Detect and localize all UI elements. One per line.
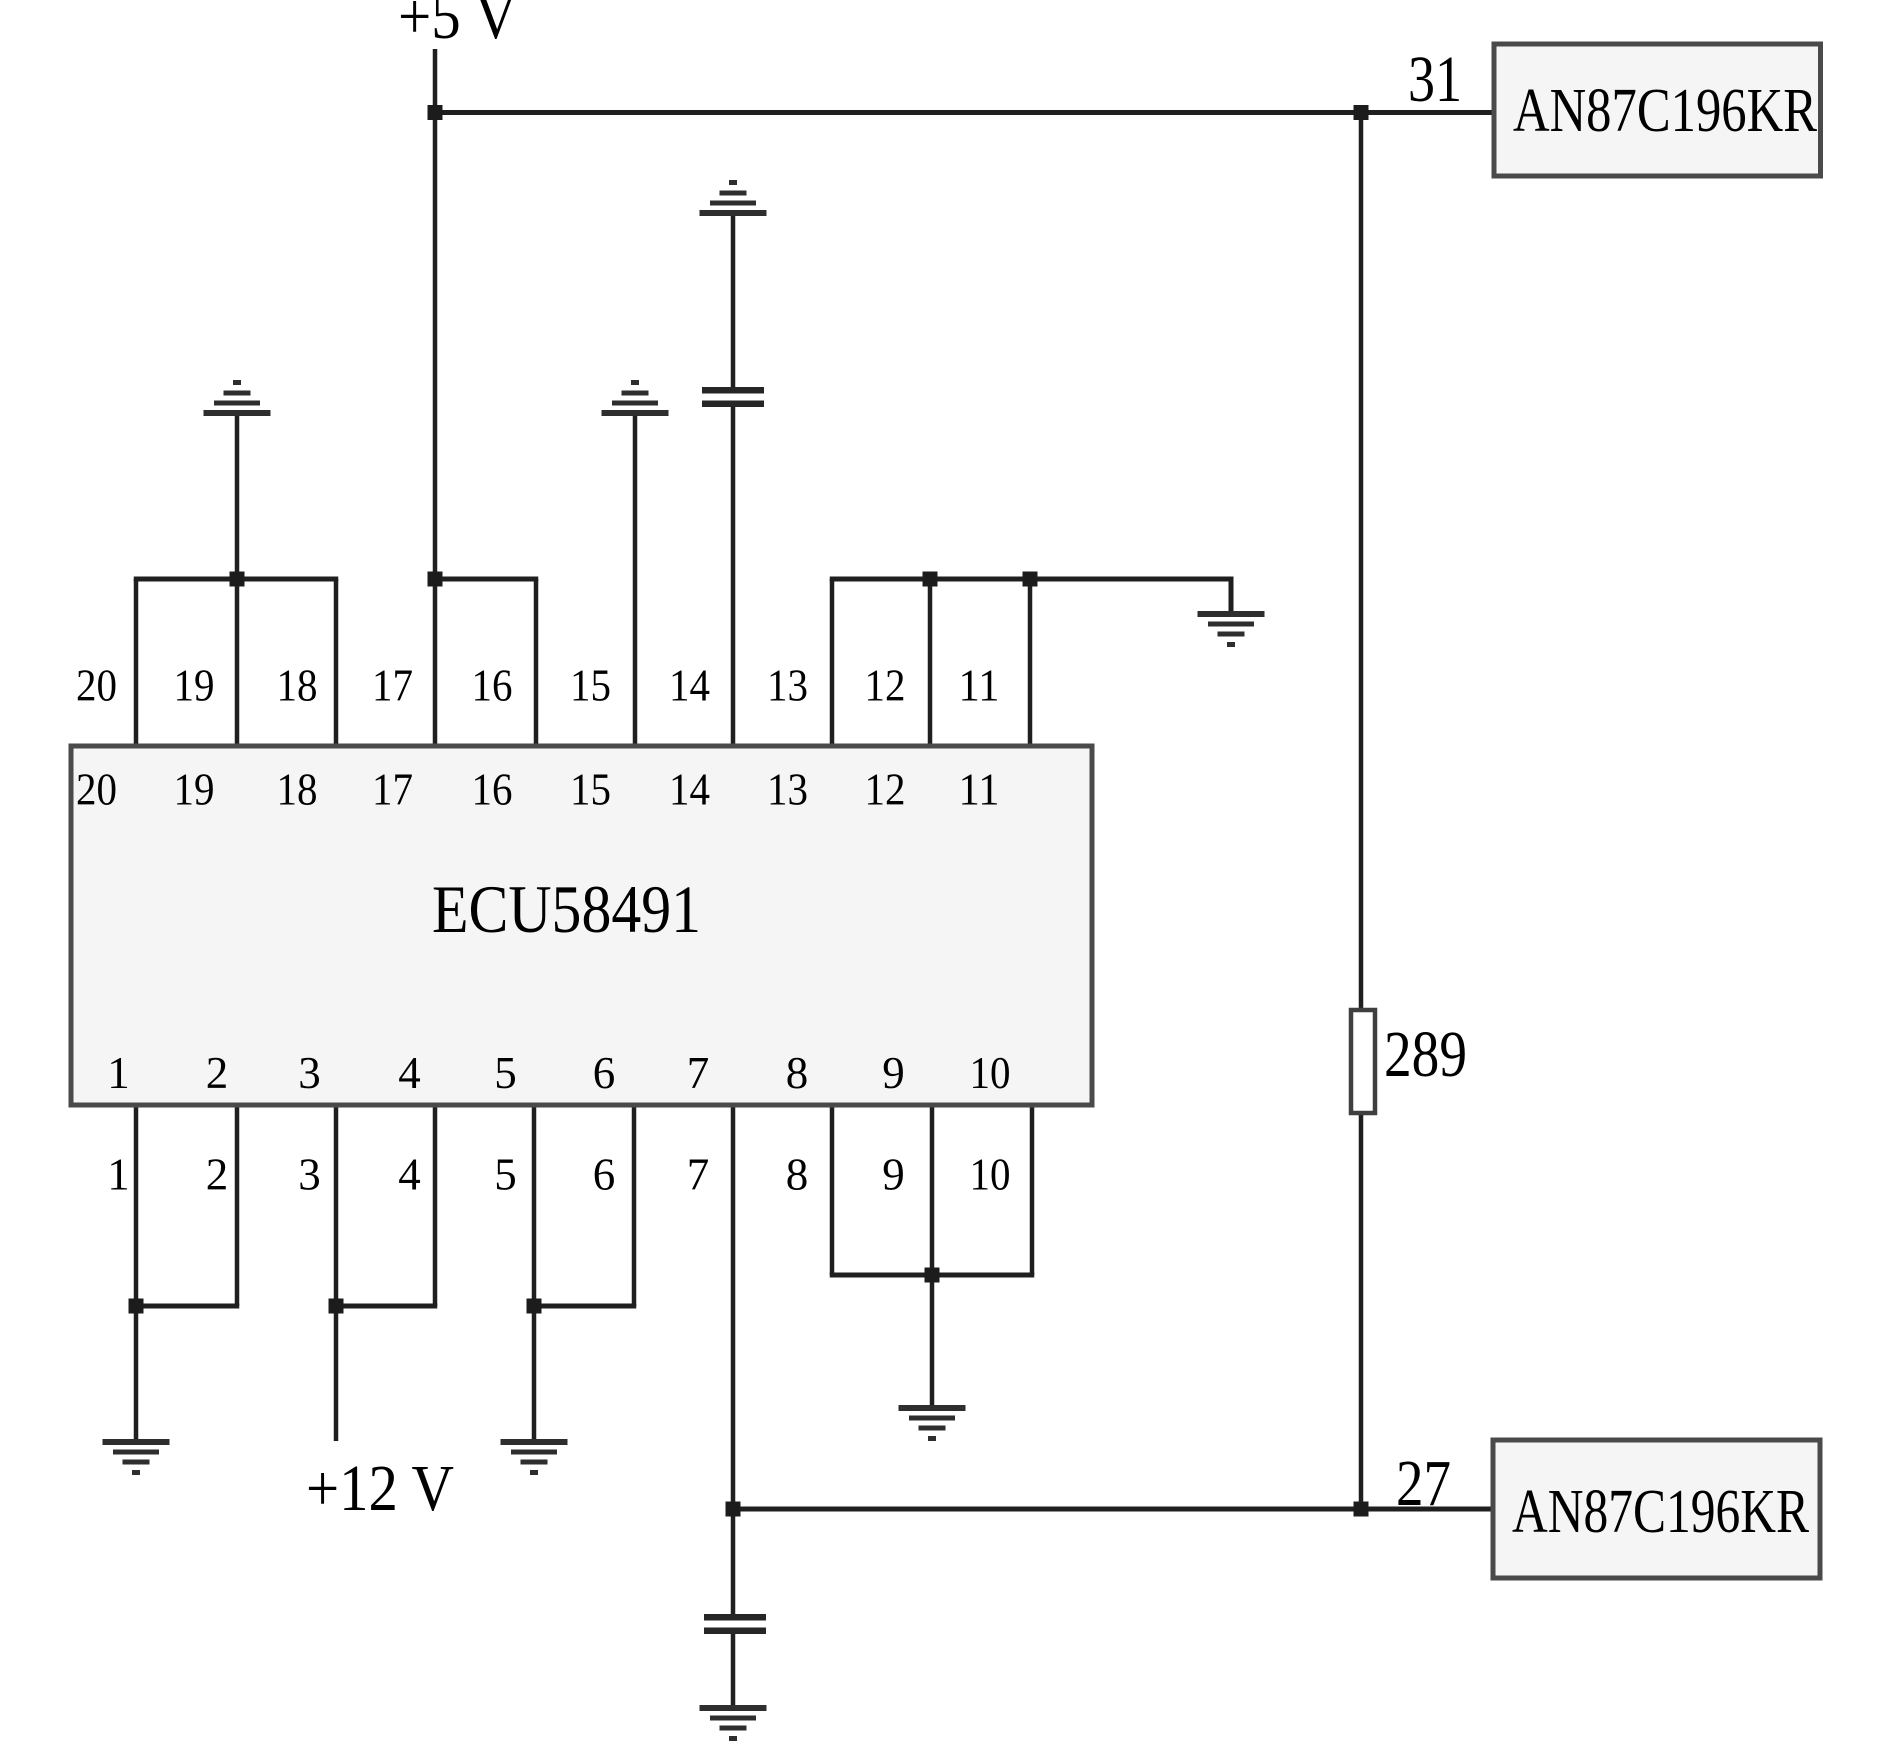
- svg-text:289: 289: [1384, 1018, 1467, 1091]
- svg-text:19: 19: [174, 765, 215, 815]
- svg-text:AN87C196KR: AN87C196KR: [1513, 77, 1818, 145]
- svg-text:9: 9: [882, 1048, 905, 1098]
- svg-text:1: 1: [107, 1150, 130, 1200]
- wire pin13 top x=832: [830, 579, 835, 747]
- svg-text:ECU58491: ECU58491: [432, 871, 701, 947]
- wire ground stem x=237: [235, 416, 240, 579]
- wire +5V vertical x=435 from top to IC box: [433, 49, 438, 747]
- ground G2 flipped above pin15: [602, 380, 669, 416]
- svg-text:11: 11: [959, 765, 1000, 815]
- resistor 289 body: [1351, 1010, 1375, 1113]
- wire bracket pins 3-4: [334, 1304, 438, 1309]
- svg-text:31: 31: [1408, 43, 1462, 116]
- wire pin2 bottom x=237: [235, 1103, 240, 1306]
- svg-text:12: 12: [865, 765, 906, 815]
- svg-text:4: 4: [398, 1048, 421, 1098]
- svg-text:19: 19: [174, 661, 215, 711]
- svg-text:8: 8: [786, 1150, 809, 1200]
- wire bracket pins 1-2: [134, 1304, 240, 1309]
- svg-text:14: 14: [669, 765, 710, 815]
- wire pin3 bottom x=336: [334, 1103, 339, 1441]
- wire bracket pins 20-18: [134, 577, 339, 582]
- svg-text:13: 13: [767, 661, 808, 711]
- svg-text:+12 V: +12 V: [306, 1452, 454, 1525]
- svg-text:15: 15: [570, 765, 611, 815]
- svg-text:16: 16: [472, 661, 513, 711]
- ground G7 below pin9: [899, 1405, 966, 1441]
- svg-text:16: 16: [472, 765, 513, 815]
- wire pin1 bottom x=136: [134, 1103, 139, 1439]
- svg-text:2: 2: [206, 1048, 229, 1098]
- capacitor C2 on pin7: [704, 1614, 766, 1634]
- svg-text:27: 27: [1396, 1447, 1451, 1520]
- svg-text:7: 7: [687, 1150, 710, 1200]
- pin labels top outside row: [76, 661, 1000, 711]
- wire top horizontal y=111: [435, 110, 1492, 115]
- wire pin8 bottom x=832: [830, 1103, 835, 1275]
- svg-text:18: 18: [277, 661, 318, 711]
- wire pin4 bottom x=435: [433, 1103, 438, 1306]
- microcontroller box AN87C196KR bottom: [1493, 1440, 1820, 1578]
- svg-text:3: 3: [298, 1048, 321, 1098]
- svg-text:20: 20: [76, 765, 117, 815]
- wire pin18 top x=336: [334, 579, 339, 747]
- ground G5 below pin1: [103, 1439, 170, 1475]
- svg-text:10: 10: [970, 1048, 1011, 1098]
- wire pin12 top x=930: [928, 579, 933, 747]
- wire pin14 top lower segment: [731, 406, 736, 747]
- wire bottom horizontal y=1509: [733, 1507, 1494, 1512]
- svg-text:3: 3: [298, 1150, 321, 1200]
- ground G8 below pin7 capacitor: [700, 1705, 767, 1741]
- svg-text:18: 18: [277, 765, 318, 815]
- pin labels bottom inside row: [107, 1048, 1010, 1098]
- svg-text:6: 6: [593, 1150, 616, 1200]
- svg-text:11: 11: [959, 661, 1000, 711]
- junction node dots: [428, 105, 443, 120]
- svg-text:8: 8: [786, 1048, 809, 1098]
- wire bracket pins 8-10: [830, 1273, 1035, 1278]
- pin labels bottom outside row: [107, 1150, 1010, 1200]
- wire pin19 top x=237: [235, 579, 240, 747]
- svg-text:4: 4: [398, 1150, 421, 1200]
- wire pin10 bottom x=1032: [1030, 1103, 1035, 1275]
- svg-text:6: 6: [593, 1048, 616, 1098]
- wire pin6 bottom x=634: [632, 1103, 637, 1306]
- wire pin7 bottom upper x=733: [731, 1103, 736, 1614]
- wire pin11 top x=1030: [1028, 579, 1033, 747]
- ground G3 flipped above pin14 capacitor: [700, 180, 767, 216]
- wire right bus lower: [1359, 1113, 1364, 1509]
- svg-text:15: 15: [570, 661, 611, 711]
- svg-text:14: 14: [669, 661, 710, 711]
- ground G4 right of pins 12-11: [1198, 611, 1265, 647]
- svg-text:AN87C196KR: AN87C196KR: [1512, 1478, 1810, 1546]
- svg-text:2: 2: [206, 1150, 229, 1200]
- wire pin20 top x=136: [134, 579, 139, 747]
- svg-text:17: 17: [372, 765, 413, 815]
- microcontroller box AN87C196KR top: [1494, 44, 1821, 176]
- svg-text:7: 7: [687, 1048, 710, 1098]
- pin labels top inside row: [76, 765, 1000, 815]
- ground G1 flipped above pin19: [204, 380, 271, 416]
- IC box ECU58491: [71, 746, 1092, 1105]
- svg-text:10: 10: [970, 1150, 1011, 1200]
- capacitor C1 on pin14: [702, 387, 764, 407]
- wire pin16 top x=536: [534, 579, 539, 747]
- svg-text:5: 5: [494, 1048, 517, 1098]
- wire pin14 top upper segment x=733: [731, 216, 736, 388]
- svg-text:9: 9: [882, 1150, 905, 1200]
- svg-text:13: 13: [767, 765, 808, 815]
- svg-text:20: 20: [76, 661, 117, 711]
- ground G6 below pin5: [501, 1439, 568, 1475]
- wire right bus upper x=1361: [1359, 113, 1364, 1011]
- wire bracket pins 5-6: [532, 1304, 637, 1309]
- svg-text:5: 5: [494, 1150, 517, 1200]
- wire pin9 bottom x=932: [930, 1103, 935, 1405]
- svg-text:1: 1: [107, 1048, 130, 1098]
- wire pin5 bottom x=534: [532, 1103, 537, 1439]
- wire bracket pins 17-16: [433, 577, 539, 582]
- wire pin7 below capacitor: [731, 1634, 736, 1705]
- wire bracket pins 13-11 to ground: [830, 579, 1231, 611]
- wire pin15 top x=635: [633, 416, 638, 747]
- svg-text:17: 17: [372, 661, 413, 711]
- svg-text:+5 V: +5 V: [398, 0, 517, 53]
- svg-text:12: 12: [865, 661, 906, 711]
